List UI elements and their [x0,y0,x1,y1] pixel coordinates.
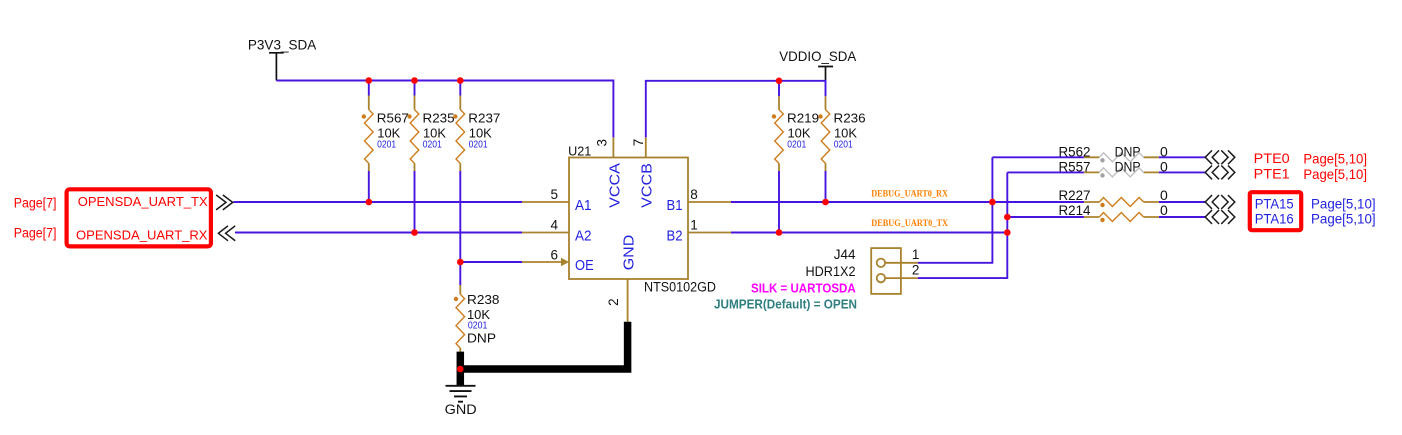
svg-text:Page[5,10]: Page[5,10] [1303,150,1367,166]
svg-text:0201: 0201 [787,139,806,151]
svg-text:4: 4 [550,218,558,233]
svg-text:B1: B1 [667,198,683,214]
svg-text:NTS0102GD: NTS0102GD [644,280,716,295]
svg-text:B2: B2 [667,229,683,245]
svg-text:0201: 0201 [468,319,488,331]
svg-text:OPENSDA_UART_RX: OPENSDA_UART_RX [76,227,208,242]
svg-text:0: 0 [1160,202,1168,218]
svg-text:DEBUG_UART0_TX: DEBUG_UART0_TX [871,218,948,228]
svg-text:GND: GND [445,402,477,417]
svg-text:PTA15: PTA15 [1255,195,1294,211]
svg-text:J44: J44 [834,247,856,262]
svg-text:8: 8 [690,187,698,202]
svg-text:VCCA: VCCA [607,163,624,208]
svg-text:0201: 0201 [834,139,853,151]
svg-text:R214: R214 [1059,202,1091,218]
svg-text:0201: 0201 [469,139,488,151]
svg-text:OE: OE [575,258,594,274]
svg-text:A1: A1 [575,198,592,214]
svg-text:0201: 0201 [377,139,396,151]
svg-text:HDR1X2: HDR1X2 [806,264,856,279]
svg-text:1: 1 [690,218,698,233]
svg-text:PTE1: PTE1 [1254,165,1290,181]
svg-text:OPENSDA_UART_TX: OPENSDA_UART_TX [78,194,208,209]
svg-text:1: 1 [912,247,920,262]
svg-text:2: 2 [912,263,920,278]
svg-text:7: 7 [631,139,646,147]
svg-text:Page[7]: Page[7] [14,226,57,241]
svg-text:0: 0 [1160,187,1168,203]
svg-text:Page[5,10]: Page[5,10] [1311,195,1376,211]
svg-text:R562: R562 [1059,143,1091,159]
svg-text:R238: R238 [467,293,500,307]
svg-text:GND: GND [621,235,638,271]
svg-text:R236: R236 [834,111,866,125]
svg-text:R237: R237 [468,111,500,125]
svg-text:VCCB: VCCB [638,163,655,208]
svg-text:0: 0 [1160,143,1168,159]
svg-text:U21: U21 [568,145,591,159]
svg-text:DNP: DNP [1115,143,1141,159]
svg-text:5: 5 [550,187,558,202]
svg-text:DEBUG_UART0_RX: DEBUG_UART0_RX [871,188,948,198]
svg-text:SILK = UARTOSDA: SILK = UARTOSDA [751,280,856,295]
svg-text:PTE0: PTE0 [1254,150,1290,166]
svg-text:Page[5,10]: Page[5,10] [1311,210,1376,226]
svg-text:Page[7]: Page[7] [14,196,57,211]
svg-text:0201: 0201 [423,139,442,151]
svg-text:JUMPER(Default) = OPEN: JUMPER(Default) = OPEN [714,297,857,312]
svg-text:6: 6 [550,248,558,263]
svg-text:R235: R235 [423,111,455,125]
svg-text:R219: R219 [787,111,819,125]
svg-text:P3V3_SDA: P3V3_SDA [248,37,317,53]
svg-text:PTA16: PTA16 [1255,210,1294,226]
svg-text:0: 0 [1160,159,1168,175]
svg-text:Page[5,10]: Page[5,10] [1303,166,1367,182]
svg-text:R227: R227 [1059,187,1091,203]
svg-text:2: 2 [606,298,621,306]
svg-text:VDDIO_SDA: VDDIO_SDA [779,48,857,64]
svg-text:DNP: DNP [467,331,496,345]
svg-text:R567: R567 [377,111,409,125]
svg-text:DNP: DNP [1115,159,1141,175]
svg-text:A2: A2 [575,229,592,245]
svg-text:R557: R557 [1059,159,1091,175]
svg-text:3: 3 [594,139,609,147]
